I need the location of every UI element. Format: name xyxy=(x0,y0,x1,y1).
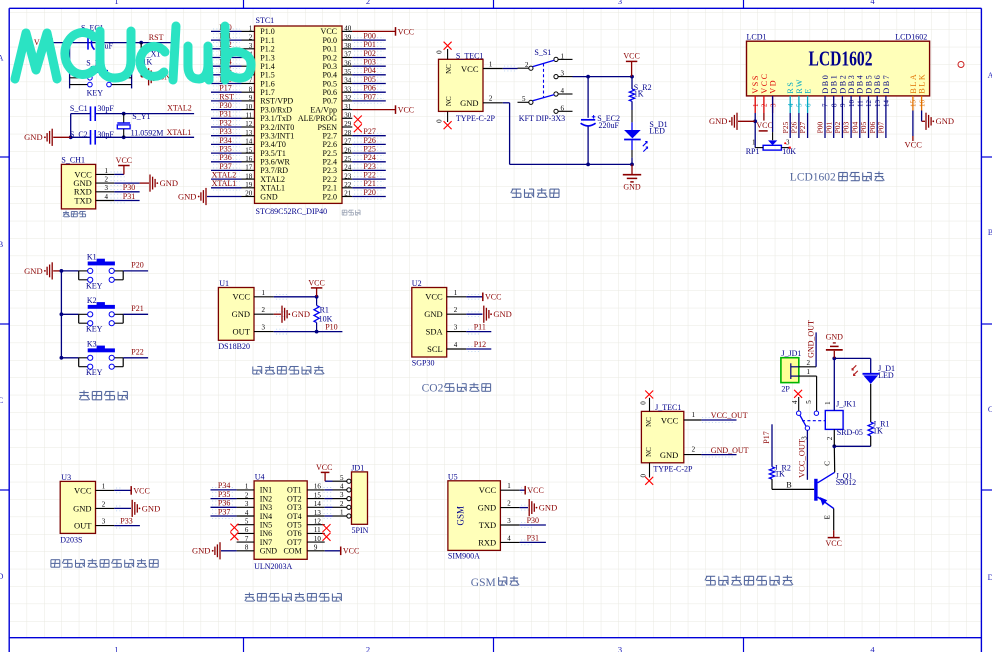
svg-text:1: 1 xyxy=(102,482,106,490)
capacitor S_C1 xyxy=(91,106,96,121)
svg-text:P3.1/TxD: P3.1/TxD xyxy=(260,114,292,123)
svg-text:2: 2 xyxy=(692,446,696,454)
wire U1 pin1 to VCC xyxy=(274,296,317,298)
wire pin 14 with node P34 xyxy=(211,136,255,147)
svg-text:P0.5: P0.5 xyxy=(323,79,337,88)
svg-text:P22: P22 xyxy=(363,171,375,180)
svg-text:XTAL1: XTAL1 xyxy=(260,184,285,193)
resistor R1 xyxy=(314,297,319,332)
IC U3 body xyxy=(60,481,95,533)
VCC at U2 pin1 xyxy=(466,293,501,302)
resistor J_R2 xyxy=(769,467,774,479)
svg-text:VCC: VCC xyxy=(133,486,149,495)
relay switch pin3 contact xyxy=(805,426,809,430)
wire J_JD1 pin1 to switch xyxy=(805,376,817,411)
svg-text:GND: GND xyxy=(709,116,727,126)
caption LCD1602显示模块 xyxy=(790,171,885,183)
svg-text:P17: P17 xyxy=(762,431,771,443)
svg-text:U2: U2 xyxy=(412,279,422,288)
wire pin 26 node P25 xyxy=(342,145,386,156)
IC U2 pins xyxy=(424,289,480,354)
svg-text:4: 4 xyxy=(791,400,799,404)
wire base xyxy=(772,479,814,489)
wire U2 SDA node P11 xyxy=(466,323,491,332)
value LED xyxy=(649,127,665,136)
relay switch lever xyxy=(800,415,807,427)
LCD pins 1-6 and 15-16 wire colour segments xyxy=(755,96,921,121)
svg-text:E: E xyxy=(804,87,813,94)
svg-text:P31: P31 xyxy=(527,533,539,542)
pin NC top j xyxy=(645,417,653,427)
svg-text:U1: U1 xyxy=(219,279,229,288)
wire node VCC_OUT vertical xyxy=(797,430,809,480)
value SGP30 xyxy=(412,358,435,367)
svg-text:GND: GND xyxy=(478,503,496,513)
svg-text:S9012: S9012 xyxy=(836,478,856,487)
svg-text:DB1: DB1 xyxy=(830,74,839,94)
svg-text:P23: P23 xyxy=(363,162,375,171)
connector J_JD1 contacts xyxy=(791,363,799,379)
svg-text:1: 1 xyxy=(114,0,118,6)
IC LCD1 body xyxy=(747,41,930,96)
LCD data wires with nodes P25-P27 P00-P07 xyxy=(781,96,886,138)
label KEY K3 xyxy=(86,368,103,377)
junction reset-switch left xyxy=(68,41,72,45)
junction crystal gnd xyxy=(69,135,73,139)
svg-text:0: 0 xyxy=(640,401,648,405)
value 10K RP1 xyxy=(782,147,796,156)
ground power rail xyxy=(623,164,641,191)
svg-text:XTAL1: XTAL1 xyxy=(212,179,237,188)
svg-text:3: 3 xyxy=(561,70,565,78)
svg-text:J_JK1: J_JK1 xyxy=(836,400,856,409)
svg-text:DB7: DB7 xyxy=(882,74,891,94)
svg-text:VSS: VSS xyxy=(751,74,760,93)
value LED J_D1 xyxy=(878,371,894,380)
wire pin 32 node P07 xyxy=(342,92,386,103)
connector S_TEC1 body xyxy=(439,59,484,111)
svg-text:3: 3 xyxy=(618,644,622,652)
svg-text:C: C xyxy=(824,461,832,466)
svg-text:P26: P26 xyxy=(363,136,375,145)
wire pin 19 with node XTAL1 xyxy=(211,179,255,190)
svg-text:OT5: OT5 xyxy=(287,521,302,530)
svg-text:2: 2 xyxy=(366,0,370,6)
no-connect X U4 pin5 xyxy=(230,524,238,532)
junction R1 top xyxy=(315,295,319,299)
svg-text:DS18B20: DS18B20 xyxy=(218,342,250,351)
svg-text:P00: P00 xyxy=(363,32,375,41)
capacitor S_EC2 xyxy=(581,77,596,165)
svg-text:P33: P33 xyxy=(120,516,132,525)
svg-text:RST: RST xyxy=(219,92,234,101)
svg-text:VCC: VCC xyxy=(825,539,841,548)
caption 人体热释电感应模块 xyxy=(51,559,158,567)
svg-text:P20: P20 xyxy=(131,261,143,270)
value SRD-05 xyxy=(837,428,863,437)
wire pin 28 node P27 xyxy=(342,127,386,138)
svg-text:0: 0 xyxy=(435,50,443,54)
svg-text:OT7: OT7 xyxy=(287,538,302,547)
wire pin 25 node P24 xyxy=(342,153,386,164)
svg-text:1: 1 xyxy=(807,368,811,376)
svg-text:11: 11 xyxy=(857,100,865,107)
no-ERC marker circle xyxy=(958,62,964,68)
VCC at U4 COM xyxy=(325,547,360,556)
wire pin 36 node P03 xyxy=(342,58,386,69)
designator J_D1 xyxy=(878,364,895,373)
svg-text:2: 2 xyxy=(489,95,493,103)
value 1K J_R2 xyxy=(775,470,785,479)
wire U4 node P35 xyxy=(211,490,237,501)
IC U2 body xyxy=(412,288,447,358)
designator S_CH1 xyxy=(61,156,85,165)
svg-text:XTAL2: XTAL2 xyxy=(212,171,237,180)
capacitor S_EC1 xyxy=(88,36,114,51)
svg-text:J_TEC1: J_TEC1 xyxy=(655,403,681,412)
svg-text:LCD1602: LCD1602 xyxy=(895,32,927,41)
wire emitter to VCC xyxy=(824,509,834,531)
svg-text:GND: GND xyxy=(623,183,641,192)
svg-text:P25: P25 xyxy=(363,145,375,154)
svg-text:8: 8 xyxy=(830,103,838,107)
ground U1 pin2 xyxy=(274,306,310,323)
designator U5 xyxy=(448,472,458,481)
relay switch pin5 contact xyxy=(814,411,818,415)
svg-text:P22: P22 xyxy=(131,347,143,356)
svg-text:1K: 1K xyxy=(775,470,785,479)
svg-text:GND: GND xyxy=(260,547,278,556)
svg-text:RS: RS xyxy=(786,81,795,94)
value 10K R1 xyxy=(319,314,333,323)
junction keys K1 xyxy=(60,269,64,273)
wire node P17 xyxy=(762,424,772,467)
VCC power port supply xyxy=(623,52,639,77)
designator U3 xyxy=(61,473,71,482)
wire pin 24 node P23 xyxy=(342,162,386,173)
svg-text:9: 9 xyxy=(839,103,847,107)
svg-text:P30: P30 xyxy=(219,101,231,110)
svg-text:OT2: OT2 xyxy=(287,494,302,503)
svg-text:U3: U3 xyxy=(61,473,71,482)
svg-text:S_CH1: S_CH1 xyxy=(61,156,85,165)
svg-text:P1.2: P1.2 xyxy=(260,45,274,54)
svg-text:1: 1 xyxy=(262,289,266,297)
value 1K S_R2 xyxy=(634,89,644,98)
svg-text:VCC: VCC xyxy=(461,64,479,74)
designator S_Y1 xyxy=(132,112,150,121)
wire pin 18 with node XTAL2 xyxy=(211,171,255,182)
svg-text:5: 5 xyxy=(522,95,526,103)
svg-text:P06: P06 xyxy=(363,84,375,93)
IC U4 pins xyxy=(237,483,325,556)
svg-text:RST/VPD: RST/VPD xyxy=(260,97,293,106)
svg-text:SIM900A: SIM900A xyxy=(448,552,480,561)
connector JD1 body xyxy=(352,472,368,524)
svg-text:P0.1: P0.1 xyxy=(323,45,337,54)
designator K2 xyxy=(87,296,97,305)
wire pin 21 node P20 xyxy=(342,188,386,199)
value DS18B20 xyxy=(218,342,250,351)
svg-text:RXD: RXD xyxy=(478,537,496,547)
designator S_EC1 xyxy=(81,24,104,33)
svg-text:KEY: KEY xyxy=(86,325,103,334)
junction gnd rail xyxy=(630,163,634,167)
VCC at U3 pin1 xyxy=(114,486,150,495)
value STC89C52RC_DIP40 xyxy=(256,207,328,216)
svg-text:P07: P07 xyxy=(363,92,375,101)
svg-text:U5: U5 xyxy=(448,472,458,481)
svg-text:5: 5 xyxy=(796,103,804,107)
VCC at LCD BLA xyxy=(905,111,923,150)
potentiometer RP1 xyxy=(752,96,791,150)
ground below S_X1 xyxy=(141,68,176,85)
svg-text:P01: P01 xyxy=(824,121,833,133)
svg-text:S_Y1: S_Y1 xyxy=(132,112,150,121)
wire crystal left leg xyxy=(70,114,72,138)
designator S_R2 xyxy=(634,83,652,92)
wire pin 17 with node P37 xyxy=(211,162,255,173)
value 5PIN xyxy=(352,526,369,535)
value 1K xyxy=(143,57,153,66)
svg-text:GND: GND xyxy=(826,333,844,342)
wire pin 15 with node P35 xyxy=(211,145,255,156)
wire relay coil pin1 xyxy=(824,358,834,410)
designator J_Q1 xyxy=(836,472,853,481)
svg-text:DB6: DB6 xyxy=(873,74,882,94)
wire pin 8 with node P17 xyxy=(211,84,255,95)
svg-text:220uF: 220uF xyxy=(599,121,620,130)
svg-text:RP1: RP1 xyxy=(746,147,760,156)
svg-text:1: 1 xyxy=(340,509,344,517)
svg-text:STC89C52RC_DIP40: STC89C52RC_DIP40 xyxy=(256,207,328,216)
wire U4 node P36 xyxy=(211,499,237,510)
wire pin 34 node P05 xyxy=(342,75,386,86)
wire pin 37 node P02 xyxy=(342,49,386,60)
wire switch pin3 to VCC rail xyxy=(573,76,633,78)
svg-text:GND: GND xyxy=(539,503,557,513)
switch K1 xyxy=(61,259,148,283)
svg-text:5: 5 xyxy=(340,474,344,482)
wire pin 6 with node P15 xyxy=(211,66,255,77)
value KFT DIP-3X3 xyxy=(519,114,565,123)
designator K3 xyxy=(87,339,97,348)
svg-text:VCC: VCC xyxy=(233,292,251,302)
designator S_EC2 xyxy=(597,114,620,123)
svg-text:P36: P36 xyxy=(218,499,230,508)
svg-text:OUT: OUT xyxy=(233,327,251,337)
pin 2 J_JD1 xyxy=(799,359,816,367)
svg-text:11.0592M: 11.0592M xyxy=(131,128,164,137)
caption 继电器控制电路 xyxy=(705,575,793,585)
svg-text:LCD1602: LCD1602 xyxy=(790,172,836,184)
no-connect stub top J_TEC1 xyxy=(640,391,654,412)
designator J_R1 xyxy=(873,419,889,428)
wire node GND_OUT xyxy=(701,446,748,457)
junction vcc rail xyxy=(630,75,634,79)
svg-text:DB4: DB4 xyxy=(856,74,865,94)
svg-text:2P: 2P xyxy=(781,385,790,394)
svg-text:RW: RW xyxy=(795,78,804,94)
caption 电源电路 xyxy=(511,188,559,197)
IC U5 body xyxy=(448,481,501,551)
svg-text:VCC: VCC xyxy=(425,292,443,302)
svg-text:IN7: IN7 xyxy=(260,538,272,547)
svg-text:GND: GND xyxy=(192,546,210,556)
svg-text:DB5: DB5 xyxy=(864,74,873,94)
LED S_D1 xyxy=(624,110,647,164)
svg-text:3: 3 xyxy=(769,103,777,107)
svg-text:6: 6 xyxy=(561,104,565,112)
svg-text:2: 2 xyxy=(105,176,109,184)
svg-text:P20: P20 xyxy=(363,188,375,197)
svg-text:NC: NC xyxy=(645,417,653,427)
svg-text:P03: P03 xyxy=(842,121,851,133)
wire pin 16 with node P36 xyxy=(211,153,255,164)
connector S_CH1 pins xyxy=(73,167,126,206)
svg-text:GND: GND xyxy=(142,503,160,513)
svg-text:1: 1 xyxy=(752,139,756,147)
svg-text:P2.1: P2.1 xyxy=(323,184,337,193)
pin NC bottom j xyxy=(645,447,653,457)
wire XTAL1 row xyxy=(71,136,194,138)
svg-text:P10: P10 xyxy=(325,323,337,332)
connector S_CH1 body xyxy=(61,164,95,209)
junction relay gnd xyxy=(832,357,836,361)
svg-text:P04: P04 xyxy=(850,121,859,133)
value 30pF C2 xyxy=(97,130,114,139)
svg-text:R1: R1 xyxy=(320,306,329,315)
svg-text:XTAL2: XTAL2 xyxy=(260,175,285,184)
svg-text:B: B xyxy=(988,228,992,237)
svg-text:VCC_OUT: VCC_OUT xyxy=(711,411,748,420)
caption CO2检测模块 xyxy=(422,382,491,394)
svg-text:2: 2 xyxy=(507,500,511,508)
crystal S_Y1 xyxy=(117,114,130,138)
svg-text:1: 1 xyxy=(692,411,696,419)
svg-text:2: 2 xyxy=(454,306,458,314)
no-connect X U4 pin6 xyxy=(230,532,238,540)
svg-text:VCC: VCC xyxy=(905,140,923,150)
wire pin 5 with node P14 xyxy=(211,58,255,69)
svg-text:6: 6 xyxy=(804,103,812,107)
wire pin 33 node P06 xyxy=(342,84,386,95)
svg-text:TYPE-C-2P: TYPE-C-2P xyxy=(456,114,496,123)
polarity mark S_EC2 xyxy=(592,115,596,119)
svg-text:VCC: VCC xyxy=(308,278,324,287)
designator J_JK1 xyxy=(836,400,856,409)
node P22 xyxy=(131,347,143,356)
svg-text:13: 13 xyxy=(874,100,882,108)
svg-text:P33: P33 xyxy=(219,127,231,136)
svg-text:LED: LED xyxy=(649,127,665,136)
designator J_R2 xyxy=(774,464,790,473)
svg-text:P2.5: P2.5 xyxy=(323,149,337,158)
junction crystal top xyxy=(122,112,126,116)
svg-text:GND: GND xyxy=(936,116,954,126)
svg-text:GND: GND xyxy=(73,503,91,513)
svg-text:P3.4/T0: P3.4/T0 xyxy=(260,140,286,149)
svg-text:14: 14 xyxy=(883,100,891,108)
no-connect X at pin 30 xyxy=(342,116,362,124)
IC U-STC1 body xyxy=(255,26,343,203)
value SIM900A xyxy=(448,552,480,561)
pin GND J_TEC1 xyxy=(660,446,702,460)
svg-text:P31: P31 xyxy=(219,110,231,119)
svg-text:NC: NC xyxy=(445,96,453,106)
relay switch link dashed xyxy=(802,420,825,422)
svg-text:P02: P02 xyxy=(363,49,375,58)
svg-text:P1.5: P1.5 xyxy=(260,71,274,80)
no-connect stub bottom S_TEC1 xyxy=(435,111,451,129)
svg-text:IN1: IN1 xyxy=(260,486,272,495)
svg-text:C: C xyxy=(0,396,3,405)
value D203S xyxy=(60,535,82,544)
pin NC bottom xyxy=(445,96,453,106)
svg-text:S_TEC1: S_TEC1 xyxy=(456,52,484,61)
svg-text:JD1: JD1 xyxy=(351,463,364,472)
svg-text:2: 2 xyxy=(366,644,370,652)
svg-text:P21: P21 xyxy=(363,179,375,188)
svg-text:5PIN: 5PIN xyxy=(352,526,369,535)
svg-text:GND: GND xyxy=(178,191,196,201)
svg-text:IN6: IN6 xyxy=(260,529,272,538)
svg-text:P02: P02 xyxy=(833,121,842,133)
wire XTAL2 row xyxy=(71,113,194,115)
svg-text:S_C1: S_C1 xyxy=(70,104,88,113)
svg-text:GSM: GSM xyxy=(471,577,496,589)
svg-text:P05: P05 xyxy=(363,75,375,84)
wire node GND_OUT vertical xyxy=(806,320,816,367)
value 220uF xyxy=(599,121,620,130)
ground keys xyxy=(24,262,61,279)
wire pin 7 with node P16 xyxy=(211,75,255,86)
svg-text:P3.7/RD: P3.7/RD xyxy=(260,166,288,175)
svg-text:B: B xyxy=(0,240,3,249)
pin 1 J_JD1 xyxy=(799,368,817,376)
no-connect X U4 pin12 xyxy=(323,524,331,532)
no-connect stub top S_TEC1 xyxy=(435,42,451,60)
svg-text:LCD1: LCD1 xyxy=(747,32,767,41)
relay J_JK1 body xyxy=(825,411,843,430)
svg-text:VCC: VCC xyxy=(74,485,92,495)
switch K2 xyxy=(61,302,148,326)
LCD1602 title text xyxy=(809,46,873,70)
svg-text:3: 3 xyxy=(262,324,266,332)
svg-text:VD: VD xyxy=(769,79,778,94)
wire U4 OT4 to JD1 xyxy=(324,514,334,519)
svg-text:P3.3/INT1: P3.3/INT1 xyxy=(260,132,294,141)
svg-text:D: D xyxy=(988,573,992,582)
svg-text:VCC: VCC xyxy=(485,293,501,302)
svg-text:IN2: IN2 xyxy=(260,494,272,503)
wire U1 OUT node P10 xyxy=(274,323,343,332)
svg-text:TXD: TXD xyxy=(74,195,91,205)
wire node P30 xyxy=(114,183,139,192)
junction resistor top xyxy=(139,41,143,45)
svg-text:4: 4 xyxy=(454,341,458,349)
svg-text:3: 3 xyxy=(340,491,344,499)
IC U3 pins xyxy=(73,482,121,530)
svg-text:30pF: 30pF xyxy=(97,130,114,139)
designator JD1 xyxy=(351,463,364,472)
VCC power port reset xyxy=(34,38,52,47)
IC STC1 pin names and numbers xyxy=(245,25,352,202)
relay switch pin4 contact xyxy=(797,411,801,415)
svg-text:OUT: OUT xyxy=(74,521,92,531)
svg-text:1: 1 xyxy=(752,103,760,107)
label KEY K2 xyxy=(86,325,103,334)
